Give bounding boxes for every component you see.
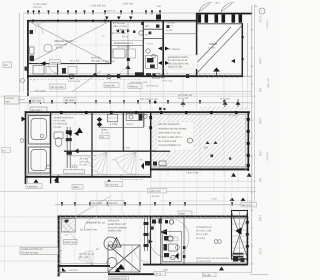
plan1 bottom wall hatch ticks right bbox=[197, 74, 199, 78]
plan2 top dimension line bbox=[20, 102, 250, 104]
plan2 right wall posts bbox=[247, 118, 250, 121]
plan2 mid dot on dim line bbox=[154, 101, 156, 104]
plan3 tank inner mark bbox=[109, 242, 113, 246]
plan3 top wall hatch ticks bbox=[59, 215, 61, 219]
plan3 lower dim line right bbox=[155, 271, 252, 273]
plan2 toilet bbox=[54, 132, 63, 146]
plan3 top dimension ticks bbox=[61, 202, 63, 206]
plan1 faint grid verticals bbox=[38, 22, 40, 76]
plan2 right wall inner bbox=[245, 114, 247, 170]
plan2 dimension arrow right2 bbox=[223, 101, 228, 105]
plan2 left wall inner bbox=[27, 113, 29, 183]
plan1 arrows at wall x163 bbox=[158, 47, 162, 51]
plan1 top wall inner line bbox=[27, 22, 197, 24]
plan3 stair arrow bbox=[117, 264, 125, 270]
left margin tiny box top bbox=[3, 62, 12, 68]
plan2 top dimension ticks bbox=[29, 100, 31, 104]
plan1 entrance door arc bbox=[48, 64, 58, 74]
plan1 central dark mark pair bbox=[156, 25, 159, 28]
plan1 right room small arrow bbox=[231, 59, 235, 63]
plan3 room text mid bbox=[108, 220, 127, 233]
plan1 small door arcs bottom bbox=[120, 68, 128, 76]
plan2 kitchen partition line bbox=[99, 126, 145, 128]
plan3 kitchen fixture cluster bbox=[163, 232, 182, 262]
plan2 bottom wall left bbox=[25, 176, 151, 178]
plan3 bottom porch line left bbox=[58, 272, 111, 274]
plan3 below-wall arrows right bbox=[219, 267, 224, 271]
plan3 small right arrow bbox=[149, 240, 154, 244]
plan1 top dimension ticks bbox=[27, 10, 29, 14]
plan2 faint grid verticals bbox=[40, 114, 42, 177]
plan2 fan door swing left bbox=[87, 152, 107, 175]
plan3 lower dim box right bbox=[203, 272, 217, 277]
plan2 hatched room bottom wall bbox=[151, 168, 249, 170]
plan2 top wall inner bbox=[25, 113, 250, 115]
left margin label box upper bbox=[5, 96, 26, 104]
plan3 dim box above top wall bbox=[178, 211, 192, 216]
plan1 top wall down triangles bbox=[105, 17, 109, 20]
plan3 left margin grid lines bbox=[0, 216, 58, 218]
plan1 left room center circle bbox=[44, 44, 52, 52]
plan1 mullion door swing arcs bbox=[199, 2, 212, 12]
plan2 box above bottom wall bbox=[64, 170, 85, 174]
plan3 leader diagonal bbox=[61, 223, 76, 240]
plan3 dim text right bbox=[241, 202, 257, 207]
plan3 bottom dark band left extension bbox=[143, 264, 160, 266]
plan1 full width faint line y96 bbox=[0, 95, 256, 97]
plan1 below-plan label box 2 bbox=[104, 83, 119, 88]
plan2 below label box 2 bbox=[72, 185, 83, 190]
plan1 top wall dark blob right bbox=[156, 15, 161, 20]
plan2 right below lines bbox=[150, 180, 256, 182]
plan1 interior wall vertical x143 bbox=[142, 20, 144, 76]
plan2 big text block bbox=[157, 122, 194, 151]
plan2 bottom wall left inner bbox=[25, 173, 151, 175]
plan1 bottom wall inner line bbox=[27, 73, 243, 75]
plan2 fixtures above bottom wall bbox=[141, 161, 166, 170]
plan1 interior wall horizontal bbox=[28, 63, 111, 65]
plan1 entrance label box bbox=[50, 60, 61, 65]
plan3 top faint line right bbox=[160, 200, 256, 202]
plan1 entrance partitions vertical bbox=[57, 64, 59, 76]
plan3 right shaft structure bbox=[232, 211, 248, 260]
plan2 text cluster left bbox=[54, 117, 74, 129]
plan2 interior wall x123 bbox=[122, 113, 124, 151]
plan2 left wall arrow bbox=[22, 117, 27, 122]
plan2 text block lower left bbox=[80, 158, 89, 167]
plan3 left wall hatch ticks bbox=[58, 219, 61, 221]
plan1 toilet room circles bbox=[146, 49, 150, 53]
plan3 bottom label box bbox=[109, 276, 129, 280]
right dimension ticks bbox=[251, 12, 254, 14]
plan2 kitchen diamonds bbox=[97, 117, 103, 122]
plan3 bottom wall right bbox=[160, 264, 248, 266]
plan2 corridor wall horizontal bbox=[64, 150, 170, 152]
plan1 window mullion posts bbox=[198, 15, 202, 23]
plan3 tank circle small bbox=[107, 258, 117, 268]
plan2 dimension label box left bbox=[31, 98, 44, 103]
plan3 corner hatched block bbox=[62, 219, 76, 233]
plan3 left annotation box bbox=[20, 247, 62, 254]
plan2 corridor box label bbox=[100, 135, 110, 139]
plan3 bottom wall left inner bbox=[58, 263, 111, 265]
plan3 corner leader diagonal bbox=[75, 197, 110, 218]
plan3 interior door arc top bbox=[84, 217, 97, 230]
plan3 right shaft arrow bbox=[236, 227, 242, 235]
plan2 dashed storage boxes bottom bbox=[121, 174, 142, 179]
plan1 wall x143 top mark bbox=[141, 22, 144, 25]
plan1 top wall tick dots bbox=[32, 20, 34, 22]
plan3 dim label box 2 bbox=[108, 200, 124, 205]
plan1 entrance hall shoe boxes bbox=[33, 66, 77, 75]
plan3 faint grid verticals bbox=[74, 218, 76, 263]
plan2 fan door swing right bbox=[116, 152, 136, 175]
plan1 right wall posts bbox=[241, 36, 243, 38]
plan2 left margin circle bbox=[20, 139, 24, 143]
plan2 room section markers bbox=[204, 141, 218, 150]
gap column lines plan1-plan2 bbox=[19, 78, 21, 110]
plan1 central lower fixtures bbox=[113, 45, 136, 76]
plan1 right room diagonal long bbox=[198, 26, 242, 73]
plan1 bottom wall circles bbox=[69, 74, 74, 79]
plan3 small box label mid bbox=[166, 237, 178, 241]
plan2 step vertical bbox=[150, 168, 152, 178]
plan3 left wall bbox=[58, 216, 60, 277]
plan1 bottom kitchen counter dark cluster bbox=[135, 72, 160, 78]
plan3 small label boxes bottom mid bbox=[154, 268, 169, 275]
plan3 top dimension line bbox=[55, 204, 250, 206]
plan3 bottom wall left bbox=[58, 265, 111, 267]
plan3 upper dark blob cluster bbox=[151, 219, 174, 230]
plan1 below-plan label box 1 bbox=[50, 84, 66, 89]
plan2 label box below dim bbox=[30, 107, 47, 112]
plan1 left wall bbox=[27, 20, 29, 96]
plan1 left extension line bbox=[19, 13, 21, 92]
plan2 bathroom unit outline bbox=[29, 116, 50, 145]
plan2 chase arrow mid bbox=[75, 149, 79, 154]
left margin mark mid bbox=[2, 148, 11, 153]
plan3 triangle section marker bbox=[112, 238, 121, 248]
plan3 room text right bbox=[196, 226, 212, 240]
plan2 pipe chase verticals bbox=[66, 127, 72, 168]
plan2 interior wall x92 bbox=[91, 113, 93, 177]
plan3 right wall bbox=[246, 216, 248, 265]
plan2 circles above bottom wall mid bbox=[70, 165, 73, 168]
plan1 right text block bbox=[167, 55, 198, 69]
plan1 right room diagonal short bbox=[198, 27, 232, 62]
plan1 sink counter dark cluster bbox=[146, 56, 158, 69]
plan1 below-plan label box 3 bbox=[128, 84, 142, 89]
plan2 dimension label box 2 bbox=[64, 98, 76, 103]
plan1 left wall entrance arrow bbox=[40, 61, 46, 65]
plan2 unit divider wall bbox=[50, 113, 52, 184]
plan2 dimension arrow left bbox=[181, 101, 186, 105]
plan1 top right grid bubble bbox=[259, 8, 265, 14]
plan1 left extension line 2 bbox=[23, 13, 25, 92]
plan2 corridor wall secondary bbox=[67, 155, 96, 157]
plan1 left room cross brace bbox=[29, 22, 109, 64]
plan2 chase up arrow bbox=[76, 128, 83, 134]
plan1 partition x163-x196 horizontal bbox=[163, 33, 196, 35]
plan1 leader diagonal to below bbox=[72, 71, 101, 92]
plan2 wall x150 dark posts bbox=[149, 116, 152, 119]
plan1 faint grid horizontal bbox=[29, 44, 110, 46]
plan2 top wall bbox=[25, 111, 250, 113]
plan3 right shaft bottom dark marks bbox=[233, 257, 245, 263]
plan3 stair block bbox=[108, 245, 140, 272]
plan2 left wall bbox=[25, 111, 27, 184]
plan3 bottom arrow mid bbox=[115, 268, 121, 272]
plan2 lower unit tub bbox=[31, 150, 47, 171]
plan2 stove unit with circle bbox=[126, 114, 147, 121]
plan2 hatched room bottom wall inner bbox=[151, 166, 249, 168]
plan2 below box right area bbox=[148, 188, 167, 193]
plan3 tank circle large bbox=[104, 237, 117, 250]
plan1 bottom wall right connector bbox=[243, 75, 252, 77]
plan2 text block circle mark bbox=[187, 138, 192, 143]
plan3 top-left wall mark bbox=[65, 220, 69, 223]
plan1 central small symbols bbox=[111, 21, 143, 45]
plan2 hatch strip above top wall right bbox=[200, 107, 248, 111]
plan2 bathroom tub bbox=[31, 119, 47, 140]
plan1 interior wall vertical x163 main bbox=[162, 20, 164, 76]
plan1 top wall bbox=[27, 20, 197, 22]
plan3 pipe verticals left bbox=[144, 218, 149, 251]
plan1 bottom wall symbols bbox=[92, 68, 220, 79]
plan2 bathroom drain circle bbox=[40, 134, 44, 138]
right dimension vertical line 2 bbox=[253, 5, 255, 200]
plan2 below label box 3 bbox=[105, 182, 123, 187]
plan2 below-wall arrows bbox=[34, 179, 39, 183]
plan1 bottom wall bbox=[27, 75, 243, 77]
plan2 long bottom reference line bbox=[0, 191, 256, 193]
plan2 interior wall x144 bbox=[143, 113, 145, 127]
plan3 top wall bbox=[58, 215, 248, 217]
plan3 top wall inner bbox=[58, 218, 248, 220]
right dimension vertical line 1 bbox=[251, 5, 253, 273]
plan1 right wall bbox=[241, 23, 243, 77]
plan2 hatch small dark marks bbox=[211, 155, 214, 158]
plan1 left wall fixtures bbox=[25, 30, 35, 71]
plan1 small partitions left of x163 bbox=[143, 28, 163, 30]
plan2 dimension arrow right bbox=[236, 101, 241, 105]
plan1 interior wall vertical x196 bbox=[196, 14, 198, 77]
plan3 bottom-left corner arrow bbox=[62, 268, 66, 272]
plan3 shaft bottom step bars bbox=[233, 253, 244, 255]
scan noise overlay bbox=[0, 0, 1, 1]
plan3 wall x184 bbox=[183, 217, 185, 264]
plan1 right wall outer bbox=[246, 23, 248, 77]
plan3 big door swing circle bbox=[149, 218, 189, 258]
plan3 bottom wall right inner bbox=[160, 261, 248, 263]
plan3 top dim arrows right bbox=[230, 198, 235, 201]
plan2 dark arrow lower left bbox=[54, 175, 59, 182]
plan3 left box label bbox=[64, 240, 78, 245]
plan3 dim label box 1 bbox=[91, 200, 107, 205]
plan2 hatched room fill bbox=[151, 114, 248, 169]
plan2 pre-wall marks bbox=[159, 108, 162, 111]
plan2 lower unit outline bbox=[29, 147, 50, 173]
plan3 mid verticals bbox=[150, 217, 152, 264]
plan2 circle at left bbox=[46, 165, 50, 169]
plan1 central partition y45 bbox=[111, 44, 143, 46]
plan1 lower dimension line bbox=[27, 91, 252, 93]
plan1 top wall door arcs left bbox=[31, 22, 43, 34]
plan2 kitchen counter rect bbox=[108, 114, 118, 122]
left margin faint vertical bbox=[4, 95, 6, 272]
plan3 door arcs interior bbox=[134, 248, 148, 262]
plan2 right wall bbox=[247, 113, 249, 171]
gap column lines plan2-plan3 bbox=[57, 193, 59, 214]
plan1 central annotation cluster bbox=[101, 21, 134, 49]
plan3 right room window posts bbox=[246, 221, 249, 224]
plan2 interior wall x150 bbox=[150, 113, 152, 177]
plan3 big left arrow bbox=[160, 229, 167, 235]
plan2 below extension verticals bbox=[150, 171, 152, 192]
plan1 window mullion row top right bar bbox=[196, 13, 252, 15]
plan3 bottom wall mid bbox=[108, 273, 161, 275]
plan1 below circle mark bbox=[21, 79, 25, 83]
plan2 left arrows bbox=[67, 131, 72, 136]
plan2 top wall posts bbox=[60, 111, 63, 114]
plan1 top dimension line bbox=[24, 12, 253, 14]
plan1 below dashed line bbox=[30, 79, 140, 81]
plan2 below label box 1 bbox=[26, 184, 42, 189]
plan3 vent circles bbox=[214, 240, 218, 244]
plan1 gap faint line bbox=[140, 93, 252, 95]
plan3 left wall inner bbox=[60, 217, 62, 275]
plan1 interior wall vertical center bbox=[110, 20, 112, 64]
plan1 mullion bottom bar bbox=[196, 23, 243, 25]
plan3 fan door swing bottom left bbox=[78, 251, 93, 265]
right bottom tick bbox=[251, 273, 269, 275]
